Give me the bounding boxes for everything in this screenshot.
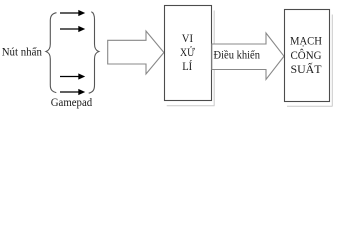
svg-text:Gamepad: Gamepad (51, 95, 92, 109)
svg-text:MẠCH: MẠCH (290, 33, 322, 47)
svg-text:SUẤT: SUẤT (291, 61, 323, 76)
svg-text:VI: VI (182, 31, 193, 45)
block power stage shadow (287, 15, 333, 107)
wire big input block arrow (108, 31, 164, 74)
svg-text:XỬ: XỬ (180, 45, 195, 59)
brace left (46, 13, 57, 93)
block U1 VI XU LI (165, 6, 212, 101)
svg-text:LÍ: LÍ (182, 59, 192, 73)
svg-text:CÔNG: CÔNG (291, 48, 322, 62)
wire button arrow 1 (60, 10, 85, 16)
wire button arrow 3 (60, 73, 85, 79)
wire control block arrow with Dieu khien label (212, 33, 284, 79)
wire button arrow 2 (60, 26, 85, 32)
block U1 shadow (167, 11, 215, 106)
block power stage MACH CONG SUAT (285, 10, 330, 102)
brace right (89, 12, 99, 94)
svg-text:Điều khiển: Điều khiển (214, 47, 261, 61)
wire button arrow 4 (60, 89, 85, 95)
svg-text:Nút nhấn: Nút nhấn (2, 45, 42, 59)
